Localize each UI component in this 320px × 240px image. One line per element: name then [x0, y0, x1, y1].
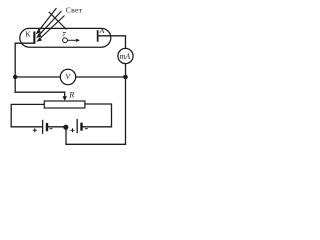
- rheostat left wire: [11, 104, 44, 126]
- voltmeter wire right: [76, 76, 126, 78]
- battery cell 1: [33, 120, 53, 134]
- cathode lead wire: [15, 42, 34, 44]
- bottom wire: [66, 143, 126, 145]
- svg-text:Свет: Свет: [66, 6, 83, 15]
- node dot right: [123, 75, 128, 80]
- svg-text:K: K: [25, 30, 31, 39]
- voltmeter V: [60, 69, 75, 84]
- rheostat right wire: [85, 104, 112, 127]
- battery tap wire: [65, 127, 67, 144]
- wavefront mark: [49, 12, 67, 30]
- svg-text:R: R: [68, 90, 74, 99]
- anode lead wire: [98, 36, 125, 49]
- rheostat R box: [44, 101, 85, 108]
- wire battery middle: [48, 126, 64, 128]
- battery left wire: [11, 126, 42, 128]
- voltmeter wire left: [15, 76, 60, 78]
- electron symbol: [63, 33, 80, 43]
- node dot left: [13, 75, 17, 79]
- wiper arrow: [63, 96, 67, 101]
- cathode plate K: [33, 32, 35, 44]
- anode plate A: [97, 30, 99, 42]
- wire battery right: [83, 126, 112, 128]
- svg-text:mA: mA: [120, 52, 131, 61]
- wire left rail: [14, 43, 16, 92]
- wiper feed wire: [15, 92, 64, 96]
- battery cell 2: [71, 119, 88, 133]
- phototube envelope: [20, 28, 111, 47]
- light rays: [39, 8, 67, 38]
- wire right rail: [125, 64, 127, 145]
- light ray arrowheads: [36, 29, 42, 42]
- svg-text:A: A: [99, 26, 105, 35]
- milliammeter mA: [118, 48, 133, 63]
- node dot battery tap: [63, 125, 68, 130]
